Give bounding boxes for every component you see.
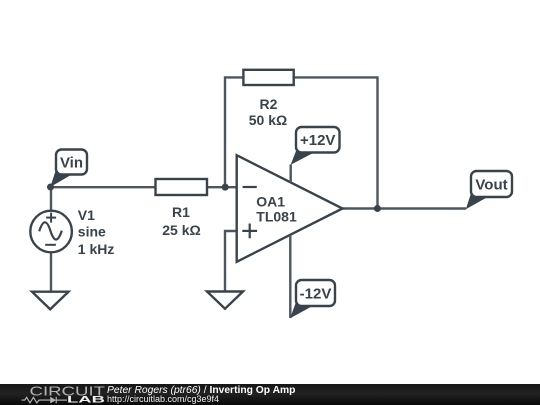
svg-text:Vin: Vin [60,155,83,172]
ground under V1 [32,292,69,310]
label TL081 [256,209,297,225]
svg-text:R2: R2 [260,96,278,112]
svg-text:Vout: Vout [475,177,507,194]
node junction dot at Vin [47,184,54,191]
resistor R1 [156,179,208,195]
label sine [78,224,106,240]
value 50 kΩ [249,112,287,128]
svg-text:R1: R1 [172,204,190,220]
svg-text:sine: sine [78,224,106,240]
label R1 [172,204,190,220]
wire -12V pin [289,235,291,318]
wire +12V pin [290,165,292,183]
flag Vin [50,150,87,188]
CircuitLab logo [0,384,120,405]
voltage source V1 [30,211,72,253]
svg-text:OA1: OA1 [256,193,285,209]
svg-text:-12V: -12V [300,286,332,303]
label 1 kHz [78,241,115,257]
wire Vin node to R1 [51,186,156,188]
footer url line [107,395,219,404]
wire non-inverting input to ground [225,231,237,293]
svg-text:V1: V1 [78,207,95,223]
label R2 [260,96,278,112]
ground under op-amp non-inverting input [207,292,243,309]
resistor R2 [243,70,293,85]
wire feedback up from input node [225,77,243,187]
footer bar [0,384,540,405]
wire R2 right to output [294,77,378,208]
value 25 kΩ [162,222,200,238]
node junction dot at output [374,205,381,212]
wire R1 to op-amp inverting input [207,186,237,188]
node junction dot at inverting input [222,184,229,191]
svg-text:+12V: +12V [300,132,335,149]
flag Vout [466,171,512,209]
label OA1 [256,193,285,209]
op-amp OA1 [237,155,343,262]
op-amp plus input marker [242,224,257,239]
svg-text:50 kΩ: 50 kΩ [249,112,287,128]
op-amp minus input marker [243,186,257,188]
wire op-amp output to Vout [343,207,467,209]
svg-text:1 kHz: 1 kHz [78,241,115,257]
flag +12V [291,127,340,165]
svg-text:25 kΩ: 25 kΩ [162,222,200,238]
svg-text:TL081: TL081 [256,209,297,225]
svg-text:LAB: LAB [67,395,105,405]
logo resistor zigzag [22,397,50,403]
wire V1 bottom to ground [50,252,52,293]
wire Vin node down to V1 [50,187,52,211]
label V1 [78,207,95,223]
flag -12V [290,280,335,318]
footer credit line [107,386,295,396]
logo wire to LAB [56,399,67,401]
logo diode [50,397,56,404]
